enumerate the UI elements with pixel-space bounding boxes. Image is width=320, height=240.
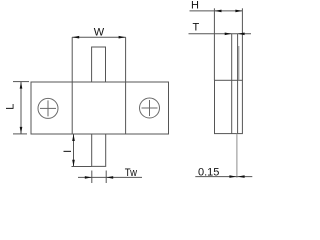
svg-text:H: H — [191, 0, 199, 12]
right mounting hole — [140, 98, 160, 118]
lead line 0.15 thick — [236, 134, 238, 178]
dimension I — [62, 134, 91, 167]
top tab — [92, 47, 106, 82]
dimension Tw — [78, 167, 142, 183]
left mounting hole — [38, 98, 58, 118]
svg-text:I: I — [62, 150, 74, 153]
ceramic right edge / W extension line — [125, 37, 127, 134]
resistor film line — [238, 46, 240, 80]
bottom tab — [92, 134, 106, 166]
ceramic left edge / W extension line — [71, 37, 73, 134]
dimension W — [72, 27, 125, 39]
svg-text:W: W — [94, 27, 105, 39]
svg-text:Tw: Tw — [125, 167, 137, 179]
svg-text:L: L — [5, 104, 17, 110]
dimension H — [190, 0, 243, 80]
dimension L — [5, 82, 29, 134]
dimension T — [189, 21, 252, 35]
substrate left edge (side view) — [231, 34, 233, 134]
svg-text:0.15: 0.15 — [198, 166, 219, 178]
flange body (front view) — [31, 82, 169, 134]
dimension 0.15 — [195, 166, 252, 178]
flange (side view) — [215, 80, 243, 133]
substrate right edge (side view) — [237, 34, 239, 134]
svg-text:T: T — [193, 21, 200, 33]
